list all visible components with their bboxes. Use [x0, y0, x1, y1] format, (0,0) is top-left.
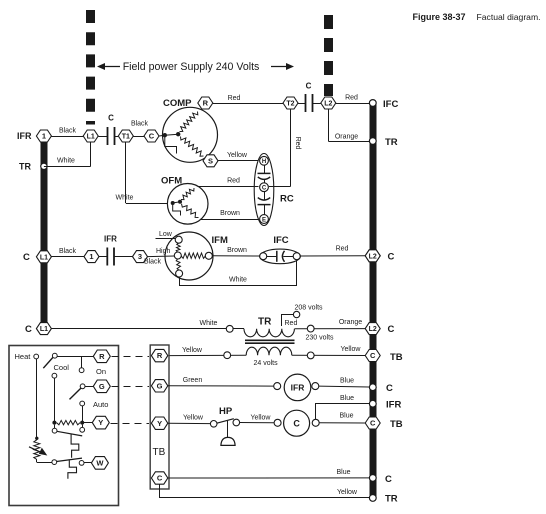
- IFM terminal Low: [175, 236, 182, 243]
- right bus bar (wire bundle): [370, 103, 377, 498]
- svg-text:Red: Red: [228, 95, 241, 102]
- RC capacitor 2 plates: [264, 192, 266, 200]
- svg-text:Field power Supply 240 Volts: Field power Supply 240 Volts: [123, 61, 260, 73]
- terminal hexagon R (COMP run): [198, 97, 213, 109]
- svg-text:Yellow: Yellow: [183, 415, 204, 422]
- node IFR on right bar: [369, 400, 376, 407]
- contactor coil C: [284, 410, 310, 436]
- Auto contact circle: [80, 401, 85, 406]
- relay coil IFR: [284, 374, 311, 401]
- svg-text:C: C: [149, 132, 155, 141]
- terminal hexagon L2: [321, 97, 336, 109]
- wire: T2 to capacitor: [298, 103, 305, 105]
- svg-text:R: R: [203, 99, 209, 108]
- IFM winding low-high: [176, 243, 180, 252]
- transformer 208V tap: [282, 315, 294, 327]
- svg-text:Brown: Brown: [227, 247, 247, 254]
- wire: L1 to capacitor C: [99, 136, 108, 138]
- wire Yellow: TB-Y to HP: [168, 422, 211, 424]
- svg-text:HP: HP: [219, 406, 233, 417]
- outdoor fan motor OFM circle: [167, 184, 208, 225]
- svg-text:TB: TB: [153, 447, 166, 458]
- junction dot (cool/resistor): [52, 421, 56, 425]
- terminal hexagon W (thermostat): [91, 457, 108, 470]
- svg-text:1: 1: [42, 132, 46, 141]
- wire White: L1 down to TR node: [90, 142, 92, 166]
- wire: capacitor to 3: [115, 256, 133, 258]
- compressor COMP motor circle: [163, 107, 218, 162]
- heat switch blade: [57, 458, 83, 461]
- svg-text:Brown: Brown: [220, 210, 240, 217]
- terminal hexagon 1 (row2): [84, 251, 99, 263]
- node C on right bar: [369, 384, 376, 391]
- terminal hexagon L2 (row2 right): [365, 250, 380, 262]
- COMP run winding (to R): [180, 112, 198, 132]
- svg-text:L2: L2: [324, 101, 332, 108]
- svg-text:L1: L1: [87, 134, 95, 141]
- On contact circle: [79, 368, 84, 373]
- COMP internal overload (step): [165, 137, 177, 154]
- svg-text:L2: L2: [369, 253, 377, 260]
- dashed link R-R: [112, 356, 150, 358]
- RC terminal C: [260, 183, 269, 192]
- node TR on right bar (bottom): [369, 495, 376, 502]
- wire Brown: OFM to RC-E: [201, 219, 259, 221]
- svg-text:Red: Red: [285, 320, 298, 327]
- wire between OFM dots: [173, 202, 180, 203]
- IFM winding high-bottom: [176, 259, 180, 271]
- svg-text:Auto: Auto: [93, 400, 108, 409]
- svg-text:C: C: [262, 186, 267, 192]
- wire: switch to R hex: [57, 356, 93, 358]
- HP blade: [217, 419, 234, 424]
- wire White: L1 to transformer: [51, 328, 244, 330]
- mercury bulb link (cool): [71, 434, 79, 457]
- IFC capacitor plates: [267, 256, 277, 258]
- transformer TR secondary winding: [246, 347, 292, 355]
- svg-text:H: H: [262, 159, 266, 165]
- wire: anticipator to heat switch: [36, 460, 38, 463]
- terminal hexagon G (TB): [151, 380, 167, 392]
- svg-text:Red: Red: [227, 178, 240, 185]
- svg-text:Low: Low: [159, 231, 173, 238]
- wire Red: L2 to IFC node: [336, 103, 370, 105]
- svg-text:L1: L1: [40, 326, 48, 333]
- heat anticipator resistor (adjustable): [34, 440, 40, 460]
- wire White: T1 down to OFM: [125, 142, 127, 203]
- wire Brown: IFM to IFC: [212, 255, 260, 257]
- wire: contact to W hex: [84, 462, 91, 464]
- terminal hexagon L2 on bar (row2): [365, 250, 380, 262]
- wire Green: TB-G to IFR coil: [168, 385, 274, 387]
- svg-text:Yellow: Yellow: [341, 346, 362, 353]
- svg-text:TB: TB: [390, 352, 403, 363]
- svg-text:S: S: [208, 156, 213, 165]
- wire Blue: contactor coil to TB-C hex: [319, 422, 365, 424]
- svg-text:C: C: [157, 474, 163, 483]
- terminal hexagon 1 (IFR): [36, 130, 51, 142]
- svg-text:IFC: IFC: [273, 235, 288, 246]
- wire Red: R to T2: [213, 103, 283, 105]
- OFM overload step: [173, 204, 181, 215]
- run capacitor RC oval: [254, 154, 274, 226]
- wire: T1 to C: [133, 136, 144, 138]
- IFC terminal left: [260, 253, 267, 260]
- node transformer primary right: [307, 325, 314, 332]
- arrow to L1 power line: [103, 66, 120, 68]
- svg-text:Heat: Heat: [15, 352, 32, 361]
- svg-text:C: C: [370, 419, 376, 428]
- heat switch left contact: [52, 460, 57, 465]
- wire Red vertical: T2 down to RC-C: [290, 109, 292, 187]
- svg-text:Y: Y: [157, 419, 162, 428]
- terminal hexagon 3: [133, 251, 148, 263]
- svg-text:T1: T1: [122, 134, 130, 141]
- svg-text:Yellow: Yellow: [337, 489, 358, 496]
- transformer TR primary winding: [244, 329, 294, 337]
- svg-text:White: White: [229, 276, 247, 283]
- adjustment arrow: [29, 447, 44, 454]
- node 208 volts: [293, 311, 299, 317]
- cool switch right contact: [80, 427, 85, 432]
- node TR on right bar: [369, 138, 376, 145]
- junction dot (OFM common): [171, 201, 175, 205]
- svg-text:W: W: [96, 459, 104, 468]
- terminal hexagon C-TB (24V): [365, 350, 380, 362]
- svg-text:IFR: IFR: [291, 382, 305, 392]
- svg-text:White: White: [57, 158, 75, 165]
- power line L2 240V (dashed): [324, 15, 333, 96]
- svg-text:Black: Black: [59, 248, 77, 255]
- cooling anticipator resistor: [57, 420, 81, 424]
- indoor fan motor IFM circle: [165, 232, 213, 280]
- svg-text:T2: T2: [286, 101, 294, 108]
- terminal hexagon R (thermostat): [93, 350, 110, 363]
- HP bellows dome: [221, 437, 235, 445]
- svg-text:COMP: COMP: [163, 98, 192, 109]
- OFM winding to Red: [181, 188, 194, 200]
- svg-text:G: G: [99, 382, 105, 391]
- terminal strip TB: [150, 345, 169, 489]
- wire: hex1 to L1: [51, 136, 83, 138]
- svg-text:Blue: Blue: [339, 413, 353, 420]
- svg-text:Black: Black: [131, 121, 149, 128]
- terminal hexagon Y (TB): [151, 417, 167, 429]
- svg-text:TR: TR: [385, 494, 398, 505]
- node transformer primary left: [226, 325, 233, 332]
- svg-text:IFR: IFR: [386, 400, 401, 411]
- svg-text:Blue: Blue: [336, 469, 350, 476]
- svg-text:White: White: [200, 320, 218, 327]
- cool contact circle: [52, 373, 57, 378]
- wire Red: OFM to RC-C: [198, 186, 259, 188]
- svg-text:Orange: Orange: [335, 134, 358, 141]
- terminal hexagon G (thermostat): [93, 380, 110, 393]
- capacitor IFR: [106, 248, 108, 266]
- wire: 1 to IFR capacitor: [99, 256, 107, 258]
- junction dot (COMP common): [163, 133, 167, 137]
- wire: capacitor to T1: [115, 136, 118, 138]
- svg-text:TR: TR: [258, 317, 272, 328]
- svg-text:OFM: OFM: [161, 176, 182, 187]
- left bus bar (wire bundle): [41, 139, 48, 333]
- svg-text:Red: Red: [336, 245, 349, 252]
- wire Yellow: HP to contactor coil: [240, 422, 275, 424]
- svg-text:Figure 38-37: Figure 38-37: [413, 12, 466, 22]
- svg-text:C: C: [108, 114, 114, 123]
- wire Blue: IFR node to contactor junction: [316, 404, 370, 420]
- svg-text:3: 3: [138, 252, 142, 261]
- svg-text:C: C: [388, 252, 395, 263]
- svg-text:IFR: IFR: [17, 131, 32, 141]
- contactor coil terminal left: [274, 419, 281, 426]
- node transformer secondary left: [224, 352, 231, 359]
- node C on right bar (bottom): [369, 475, 376, 482]
- svg-text:Yellow: Yellow: [251, 414, 272, 421]
- transformer core: [245, 339, 295, 341]
- svg-text:High: High: [156, 248, 171, 255]
- svg-text:Red: Red: [345, 94, 358, 101]
- dashed link Y-Y: [111, 423, 150, 425]
- wire Yellow: secondary left to TB-R: [169, 354, 247, 356]
- IFR coil terminal left: [274, 383, 281, 390]
- svg-text:Black: Black: [59, 128, 77, 135]
- wire White: IFM bottom loop: [180, 260, 297, 286]
- svg-text:Orange: Orange: [339, 319, 362, 326]
- wire Yellow: secondary right to C hex: [292, 354, 365, 356]
- capacitor IFC oval: [260, 249, 301, 264]
- svg-text:24 volts: 24 volts: [254, 360, 279, 367]
- heat switch right contact: [79, 461, 84, 466]
- wire Red: IFC to L2 (row2): [300, 255, 365, 257]
- junction dot (OFM winding center): [178, 200, 182, 204]
- fan switch blade: [70, 388, 81, 399]
- svg-text:IFR: IFR: [104, 235, 117, 244]
- wire Yellow: TB-C to TR node (bottom): [160, 484, 370, 497]
- thermostat box: [9, 346, 119, 506]
- junction dot (COMP winding center): [176, 132, 180, 136]
- wire Orange: L2 down to TR node: [328, 109, 330, 141]
- svg-text:C: C: [293, 419, 300, 429]
- IFM main winding: [181, 253, 206, 258]
- svg-text:C: C: [370, 351, 376, 360]
- wire: capacitor to L2: [313, 103, 321, 105]
- wire stub right contact: [82, 425, 84, 428]
- wire: C hex into COMP: [159, 134, 165, 137]
- terminal hexagon T2: [283, 97, 298, 109]
- capacitor C (compressor run cap top): [107, 127, 109, 145]
- svg-text:C: C: [388, 324, 395, 335]
- HP contact left: [210, 421, 217, 428]
- node IFC on right bar: [369, 100, 376, 107]
- power line L1 240V (dashed): [86, 10, 95, 125]
- svg-text:1: 1: [89, 252, 93, 261]
- svg-text:Green: Green: [183, 377, 203, 384]
- wire Blue: TB-C to C node (bottom): [168, 477, 369, 479]
- cool switch blade: [57, 431, 82, 436]
- svg-text:L1: L1: [40, 254, 48, 261]
- svg-text:Yellow: Yellow: [227, 152, 248, 159]
- svg-text:L2: L2: [369, 326, 377, 333]
- terminal hexagon Y (thermostat): [92, 416, 109, 429]
- terminal hexagon S (COMP start): [203, 155, 218, 167]
- svg-text:G: G: [157, 381, 163, 390]
- svg-text:IFM: IFM: [212, 235, 228, 246]
- terminal hexagon L1 (row3): [36, 323, 51, 335]
- IFM terminal run (right): [205, 252, 212, 259]
- terminal hexagon L1: [83, 130, 98, 142]
- svg-text:208 volts: 208 volts: [295, 305, 324, 312]
- svg-text:TB: TB: [390, 419, 403, 430]
- fan switch pivot circle: [80, 384, 85, 389]
- svg-text:Red: Red: [294, 137, 301, 150]
- svg-text:C: C: [385, 474, 392, 485]
- wire: heat contact down: [36, 359, 38, 437]
- wire between dots: [165, 134, 178, 135]
- svg-text:Blue: Blue: [340, 395, 354, 402]
- COMP start winding (to S): [181, 137, 204, 157]
- junction dot (auto/resistor): [80, 421, 84, 425]
- svg-text:IFC: IFC: [383, 99, 398, 110]
- svg-text:On: On: [96, 367, 106, 376]
- heat contact circle: [34, 354, 39, 359]
- svg-text:230 volts: 230 volts: [306, 335, 335, 342]
- node transformer secondary right: [307, 352, 314, 359]
- wire Yellow: S to RC-H: [218, 160, 259, 162]
- junction dot (heat anticipator): [35, 437, 38, 440]
- wire: L1 to hex 1 (row2): [51, 256, 84, 258]
- terminal hexagon L1 (row2): [36, 251, 51, 263]
- mercury bulb link (heat): [68, 460, 77, 479]
- svg-text:R: R: [99, 352, 105, 361]
- system switch pivot circle: [52, 353, 57, 358]
- wire: On drop: [81, 356, 83, 368]
- contactor coil terminal right: [312, 419, 319, 426]
- terminal hexagon C-TB (contactor): [365, 417, 380, 429]
- terminal hexagon C (TB): [151, 472, 167, 484]
- wire stub left contact: [54, 425, 56, 429]
- svg-text:Yellow: Yellow: [182, 347, 203, 354]
- arrow to L2 power line: [271, 66, 288, 68]
- svg-text:C: C: [386, 383, 393, 394]
- wire: cool contact down: [54, 378, 56, 423]
- wire: fan switch to G hex: [85, 386, 93, 388]
- node TR on left bar: [41, 163, 47, 169]
- wire Blue: IFR coil to C node: [319, 385, 369, 388]
- svg-text:TR: TR: [19, 162, 31, 172]
- svg-text:RC: RC: [280, 194, 294, 205]
- svg-text:Black: Black: [144, 259, 162, 266]
- svg-text:R: R: [157, 351, 163, 360]
- system switch blade (heat): [43, 358, 53, 369]
- svg-text:C: C: [306, 82, 312, 91]
- terminal hexagon R (TB): [151, 349, 167, 361]
- IFM terminal common (bottom): [176, 270, 183, 277]
- wire: primary right to node: [295, 328, 366, 330]
- IFR coil terminal right: [312, 383, 319, 390]
- HP contact right: [233, 419, 240, 426]
- terminal hexagon C (compressor common): [144, 130, 159, 142]
- svg-text:E: E: [262, 217, 266, 223]
- terminal hexagon L2 on bar (row3): [365, 323, 380, 335]
- svg-text:Blue: Blue: [340, 378, 354, 385]
- dashed link G-G: [112, 386, 150, 388]
- RC terminal E: [260, 215, 269, 224]
- OFM winding to Brown: [182, 204, 199, 218]
- RC terminal H: [260, 156, 269, 165]
- wire Black: 3 to IFM: [148, 255, 175, 258]
- cool switch left contact: [52, 428, 57, 433]
- wire: Auto down: [82, 406, 84, 423]
- svg-text:White: White: [116, 194, 134, 201]
- IFM terminal High: [174, 252, 181, 259]
- wire: resistor to Y hex: [82, 422, 92, 424]
- svg-text:Y: Y: [98, 418, 103, 427]
- svg-text:TR: TR: [385, 137, 398, 148]
- terminal hexagon T1: [118, 130, 133, 142]
- svg-text:C: C: [23, 252, 30, 263]
- RC capacitor 1 plates: [264, 165, 266, 173]
- svg-text:C: C: [25, 324, 32, 335]
- svg-text:Factual diagram.: Factual diagram.: [477, 12, 541, 22]
- capacitor C (top right): [305, 94, 307, 112]
- IFC terminal right: [293, 253, 300, 260]
- svg-text:Cool: Cool: [54, 363, 70, 372]
- HP actuator link: [227, 421, 229, 438]
